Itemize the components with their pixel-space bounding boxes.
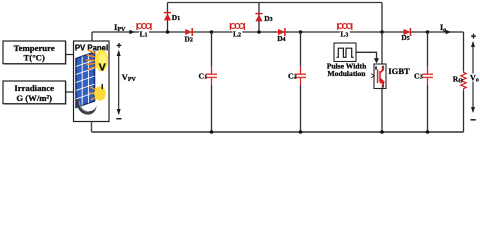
node E junction — [426, 30, 430, 34]
node bottom E junction — [426, 130, 430, 134]
wire D1 branch vertical — [167, 3, 169, 33]
input block Irradiance — [3, 81, 67, 105]
PV Panel block — [74, 41, 110, 122]
diode D1 — [164, 13, 171, 21]
label C2 — [288, 71, 297, 80]
bottom rail — [92, 131, 464, 133]
wire IGBT emitter to bottom rail — [381, 89, 383, 133]
capacitor C1 — [206, 32, 217, 132]
gate port marker — [371, 74, 374, 78]
label IPV — [114, 22, 126, 33]
label RO — [453, 74, 463, 84]
label C3 — [414, 71, 423, 80]
label D3 — [264, 14, 272, 23]
svg-text:IGBT: IGBT — [388, 66, 410, 76]
label IGBT — [388, 66, 410, 76]
annotation VPV plus — [117, 43, 122, 48]
svg-text:Irradiance: Irradiance — [14, 83, 54, 93]
inductor L3 — [338, 23, 352, 30]
label C1 — [199, 71, 208, 80]
svg-text:Io: Io — [440, 23, 446, 33]
svg-text:C2: C2 — [288, 71, 297, 80]
label L1 — [139, 30, 149, 39]
label D2 — [185, 35, 193, 44]
annotation VPV minus — [116, 118, 121, 120]
node B junction — [210, 30, 214, 34]
wire from PV Panel bottom to ground rail — [91, 122, 93, 132]
arrow Io on wire — [446, 30, 451, 34]
wire node D to IGBT collector — [381, 32, 383, 64]
node bottom D junction — [380, 130, 384, 134]
svg-text:T(°C): T(°C) — [24, 52, 45, 62]
IGBT block U1 — [374, 64, 386, 89]
node bottom B junction — [210, 130, 214, 134]
label Vo — [469, 73, 480, 83]
main top wire — [92, 31, 464, 33]
resistor RO — [461, 71, 466, 92]
label Pulse Width Modulation — [327, 61, 367, 78]
label D5 — [401, 33, 409, 42]
svg-text:D3: D3 — [264, 14, 272, 23]
wire top rail to node D vertical — [381, 3, 383, 33]
svg-text:C1: C1 — [199, 71, 208, 80]
label D4 — [277, 34, 285, 43]
diode D3 — [255, 14, 262, 22]
inductor L2 — [230, 23, 244, 30]
annotation Vo minus — [471, 119, 476, 121]
svg-text:VPV: VPV — [122, 73, 137, 83]
wire from PV Panel top to main line — [91, 32, 93, 41]
wire stub Irradiance to PV block — [66, 91, 74, 93]
node C junction — [299, 30, 303, 34]
diode D4 — [278, 28, 285, 36]
node D junction — [380, 30, 384, 34]
node A junction — [166, 30, 170, 34]
label L3 — [340, 30, 350, 39]
arrow IPV on wire — [129, 30, 135, 35]
node D3 junction — [257, 30, 261, 34]
label VPV — [122, 73, 137, 83]
input block Temperature — [3, 41, 67, 65]
wire PWM to IGBT gate — [356, 52, 379, 63]
top rail — [168, 2, 383, 4]
svg-text:D1: D1 — [172, 13, 180, 22]
diode D2 — [185, 28, 192, 36]
label D1 — [172, 13, 180, 22]
annotation Vo plus — [471, 34, 476, 39]
svg-text:g: g — [375, 66, 377, 70]
wire right side vertical — [463, 32, 465, 132]
capacitor C3 — [422, 32, 433, 132]
svg-text:IPV: IPV — [114, 22, 126, 33]
capacitor C2 — [295, 32, 306, 132]
annotation VPV arrow — [117, 50, 121, 115]
svg-text:C3: C3 — [414, 71, 423, 80]
svg-text:G (W/m²): G (W/m²) — [16, 93, 52, 103]
wire stub Temperature to PV block — [66, 54, 74, 56]
wire D3 branch vertical — [258, 3, 260, 33]
svg-text:V: V — [99, 62, 106, 74]
diode D5 — [404, 28, 411, 36]
svg-text:I: I — [101, 82, 103, 91]
label Io — [440, 23, 446, 33]
annotation Vo arrow — [471, 41, 475, 113]
label L2 — [232, 30, 242, 39]
svg-text:D5: D5 — [401, 33, 409, 42]
PWM source block — [334, 43, 356, 62]
svg-text:Modulation: Modulation — [328, 69, 367, 78]
node bottom C junction — [299, 130, 303, 134]
inductor L1 — [137, 23, 151, 30]
